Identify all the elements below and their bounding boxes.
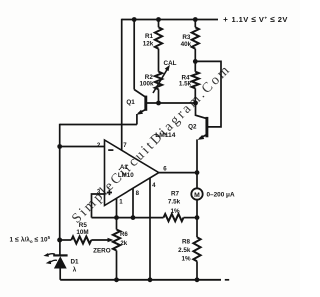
svg-text:1.5k: 1.5k — [179, 81, 192, 88]
svg-text:R7: R7 — [171, 191, 180, 198]
svg-text:40k: 40k — [181, 41, 192, 48]
node pin4 bottom junction — [148, 277, 153, 282]
wire top V+ rail — [122, 19, 218, 21]
svg-text:0–200 μA: 0–200 μA — [207, 191, 235, 198]
wire pin4 lead down to negative rail — [149, 178, 151, 280]
op-amp minus symbol — [108, 149, 113, 151]
wire R5 to R6 wiper arrow — [91, 239, 108, 241]
node meter-R7-R8 junction — [195, 215, 200, 220]
svg-text:R8: R8 — [182, 238, 191, 245]
svg-text:2k: 2k — [120, 240, 127, 247]
node R3-R4 tap junction — [193, 59, 198, 64]
wire R2 bottom lead — [158, 89, 160, 103]
negative terminal dash — [225, 279, 229, 281]
potentiometer R6 2k ZERO — [113, 230, 120, 251]
resistor R5 10M — [71, 236, 91, 243]
wire ground bus — [92, 217, 164, 219]
wire emitter to left rail — [60, 124, 137, 126]
wire pin7 dropper from rail — [121, 19, 123, 151]
wire Q1 base line — [147, 102, 196, 104]
wire Q2 emitter down to output node — [196, 139, 198, 172]
wire meter to R8 node — [196, 200, 198, 237]
potentiometer R2 100k CAL — [155, 72, 162, 90]
svg-text:12k: 12k — [143, 41, 154, 48]
wire Q1 emitter down — [136, 114, 138, 125]
resistor R8 2.5k 1% — [193, 237, 200, 261]
node pin8 bus junction — [131, 215, 136, 220]
svg-text:Q2: Q2 — [188, 123, 197, 130]
resistor R7 7.5k 1% — [164, 214, 184, 221]
wire R1 top lead — [158, 20, 160, 28]
node base-R2 junction — [156, 101, 161, 106]
node rail-R3 junction — [193, 17, 198, 22]
wire tap to Q2 base loop — [195, 61, 221, 127]
svg-text:7.5k: 7.5k — [168, 199, 181, 206]
wire R6 bottom lead — [116, 251, 118, 280]
wire output to meter — [196, 173, 198, 188]
svg-text:λ: λ — [73, 266, 77, 274]
wire Q1 collector dropper — [133, 20, 135, 90]
wire R6 top lead — [116, 218, 118, 230]
node summing-R5-D1 junction — [57, 238, 62, 243]
node R8 bottom junction — [195, 277, 200, 282]
light arrows into D1 — [47, 254, 55, 256]
wire bottom negative rail — [60, 279, 221, 281]
wire R4 bottom lead — [194, 88, 196, 103]
svg-text:1%: 1% — [170, 208, 180, 215]
node output junction — [195, 170, 200, 175]
svg-text:+: + — [223, 15, 228, 24]
svg-text:R3: R3 — [182, 34, 191, 41]
svg-text:1%: 1% — [181, 255, 191, 262]
wire op-amp pin2 lead — [60, 146, 105, 148]
svg-text:R6: R6 — [120, 231, 128, 238]
node base-R4-Q2 collector junction — [193, 101, 198, 106]
resistor R1 12k — [155, 27, 162, 48]
wire R3 top lead — [194, 20, 196, 28]
svg-text:D1: D1 — [70, 258, 79, 265]
resistor R4 1.5k — [192, 72, 199, 89]
photodiode D1 lambda — [53, 254, 67, 256]
node pin1-R6 bus junction — [114, 215, 119, 220]
svg-text:ZERO: ZERO — [93, 247, 111, 254]
wire pin3 lead and step to ground bus — [92, 194, 105, 218]
svg-text:1.1V ≤ V+ ≤ 2V: 1.1V ≤ V+ ≤ 2V — [232, 14, 288, 24]
transistor Q2 — [196, 103, 207, 118]
wire D1 top lead — [59, 240, 61, 255]
wire R1-R2 link — [158, 49, 160, 72]
svg-text:100k: 100k — [139, 81, 154, 88]
svg-text:CAL: CAL — [164, 60, 177, 67]
watermark — [69, 62, 234, 227]
svg-text:LM10: LM10 — [118, 172, 134, 179]
wire R5 left lead — [60, 239, 72, 241]
meter M 0-200uA — [191, 188, 202, 199]
svg-text:2.5k: 2.5k — [178, 247, 191, 254]
node rail-Q1 junction — [132, 17, 137, 22]
wire pin8 lead — [132, 188, 134, 217]
wire left summing rail — [59, 124, 61, 240]
node rail-R1 junction — [156, 17, 161, 22]
wire R8 bottom lead — [196, 261, 198, 280]
node R6 bottom junction — [114, 277, 119, 282]
svg-text:Q1: Q1 — [126, 99, 135, 106]
wire op-amp output pin6 — [159, 172, 197, 174]
op-amp A1 LM10 — [105, 140, 159, 206]
node inverting input junction — [57, 144, 62, 149]
svg-text:LM114: LM114 — [155, 132, 175, 139]
svg-text:R1: R1 — [145, 33, 154, 40]
svg-text:10M: 10M — [76, 229, 88, 236]
resistor R3 40k — [192, 27, 199, 48]
svg-text:A1: A1 — [120, 164, 128, 171]
transistor Q1 — [134, 90, 145, 97]
svg-text:M: M — [194, 192, 200, 199]
op-amp plus symbol — [107, 190, 112, 195]
wire R3-R4 link — [194, 49, 196, 72]
wire pin1 lead — [116, 198, 118, 217]
